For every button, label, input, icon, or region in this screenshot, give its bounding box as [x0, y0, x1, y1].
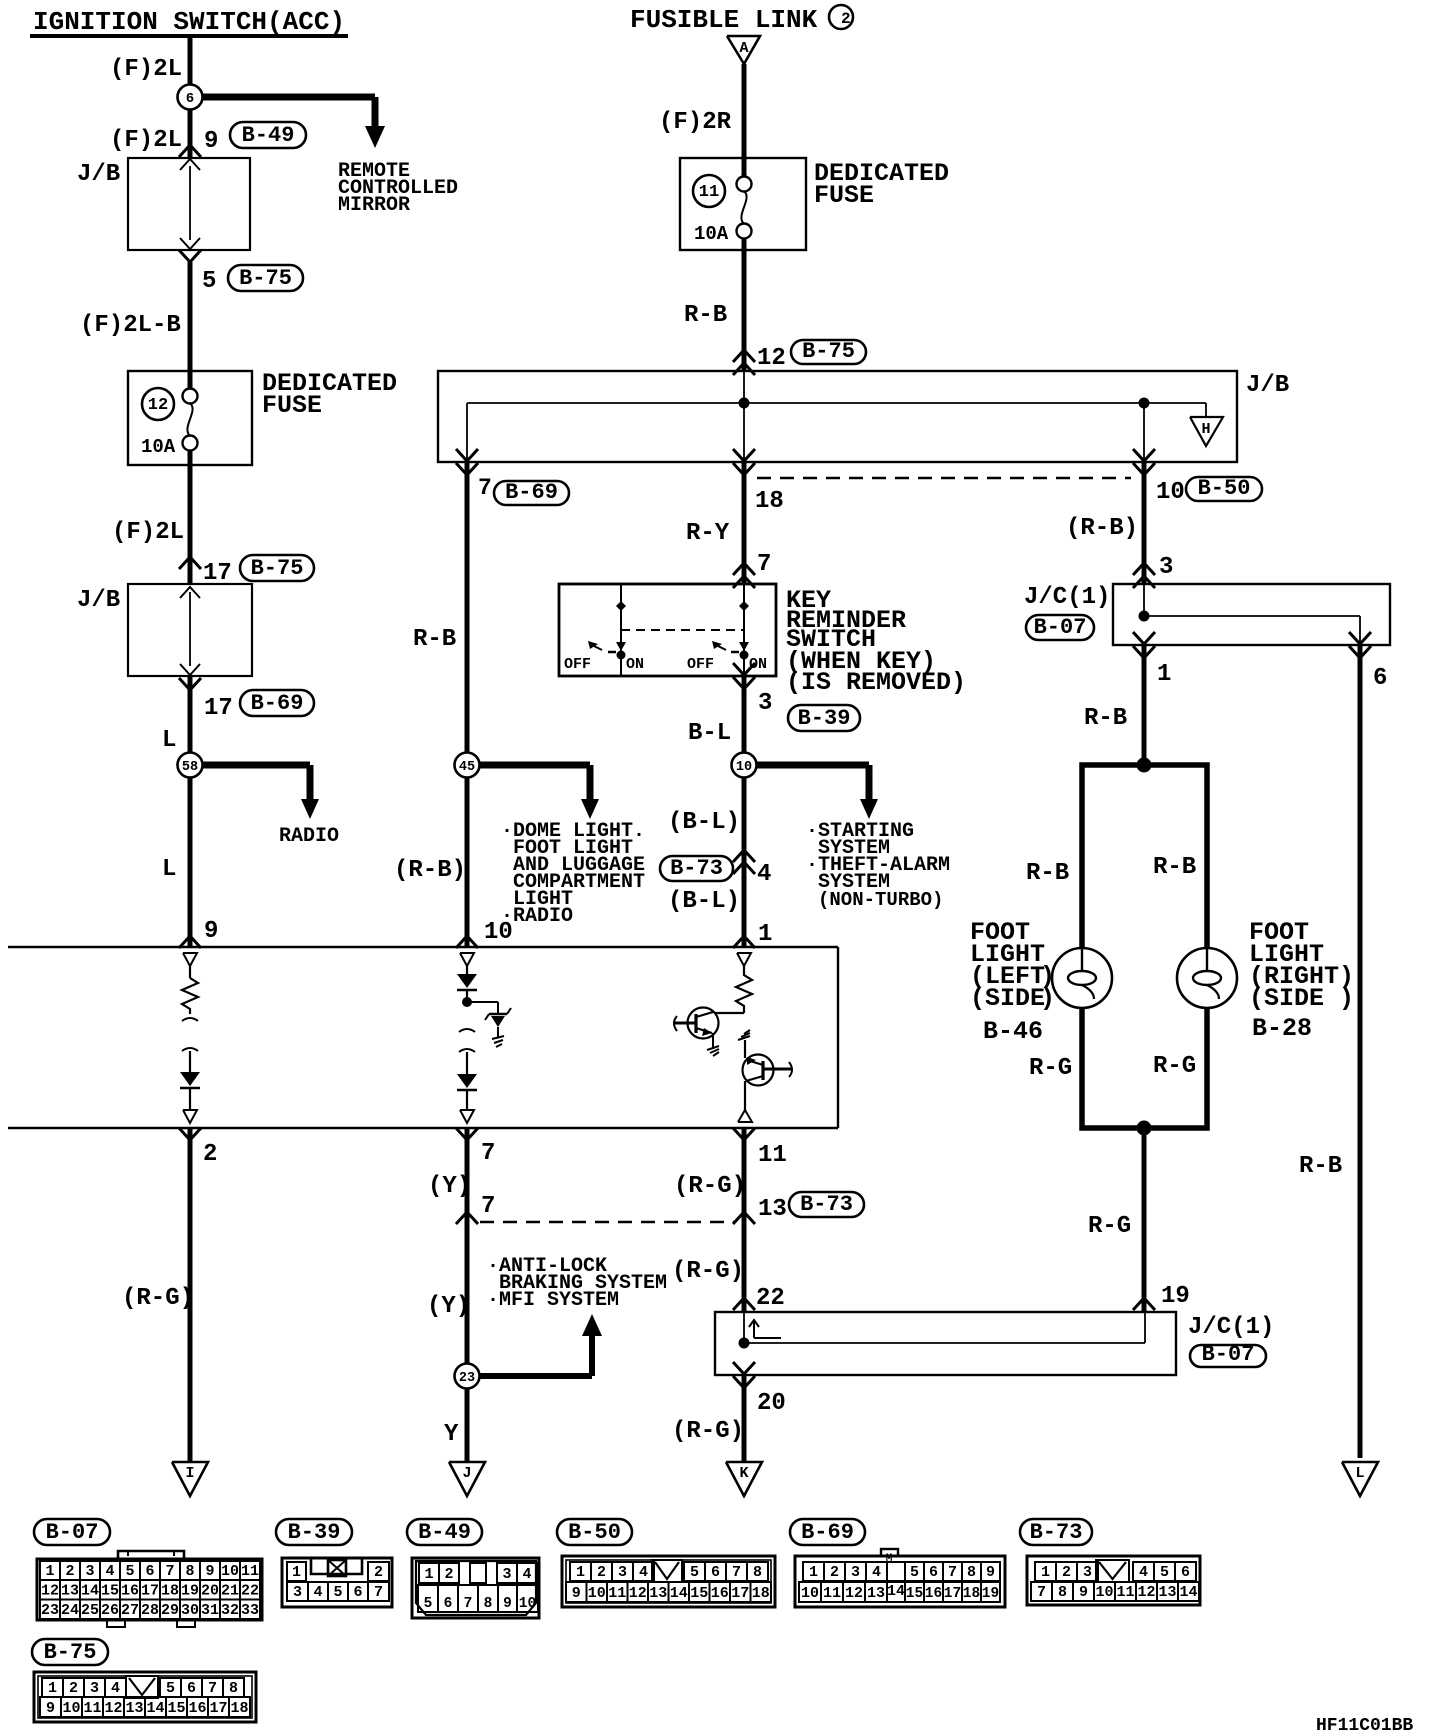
svg-text:18: 18	[963, 1586, 980, 1602]
svg-text:IGNITION SWITCH(ACC): IGNITION SWITCH(ACC)	[33, 7, 345, 37]
svg-text:15: 15	[906, 1586, 923, 1602]
svg-text:12: 12	[629, 1585, 647, 1602]
svg-text:B-75: B-75	[239, 266, 292, 291]
svg-text:5: 5	[166, 1680, 175, 1697]
svg-text:(F)2R: (F)2R	[659, 109, 732, 136]
svg-text:19: 19	[181, 1583, 199, 1600]
svg-text:17: 17	[731, 1585, 749, 1602]
svg-text:3: 3	[1083, 1564, 1092, 1581]
svg-text:ON: ON	[626, 656, 644, 673]
svg-text:20: 20	[201, 1583, 219, 1600]
svg-text:J/B: J/B	[77, 161, 120, 188]
svg-text:10A: 10A	[694, 223, 729, 245]
svg-text:(R-G): (R-G)	[672, 1258, 744, 1285]
svg-text:6: 6	[929, 1564, 938, 1581]
svg-text:18: 18	[161, 1583, 179, 1600]
svg-text:30: 30	[181, 1602, 199, 1619]
svg-text:OFF: OFF	[687, 656, 714, 673]
svg-text:2: 2	[597, 1564, 606, 1581]
svg-text:2: 2	[444, 1566, 453, 1583]
svg-text:17: 17	[209, 1700, 227, 1717]
svg-text:Y: Y	[444, 1421, 459, 1448]
svg-text:8: 8	[753, 1564, 762, 1581]
svg-text:1: 1	[1041, 1564, 1050, 1581]
svg-text:B-39: B-39	[288, 1520, 341, 1545]
svg-text:9: 9	[46, 1700, 55, 1717]
svg-text:1: 1	[424, 1566, 433, 1583]
svg-text:45: 45	[459, 760, 475, 775]
svg-text:28: 28	[141, 1602, 159, 1619]
svg-text:B-75: B-75	[802, 339, 855, 364]
svg-text:(R-G): (R-G)	[674, 1173, 746, 1200]
svg-text:J/C(1): J/C(1)	[1188, 1314, 1274, 1341]
svg-text:13: 13	[867, 1585, 885, 1602]
svg-text:8: 8	[484, 1596, 493, 1612]
svg-text:·MFI SYSTEM: ·MFI SYSTEM	[487, 1289, 619, 1312]
svg-text:R-B: R-B	[684, 302, 727, 329]
svg-text:R-B: R-B	[1299, 1153, 1342, 1180]
svg-text:19: 19	[982, 1586, 999, 1602]
svg-text:L: L	[1355, 1465, 1364, 1482]
svg-text:10: 10	[484, 919, 513, 946]
svg-text:3: 3	[85, 1563, 94, 1580]
svg-text:7: 7	[478, 475, 492, 501]
svg-text:L: L	[162, 856, 176, 883]
svg-text:(B-L): (B-L)	[668, 888, 740, 915]
svg-text:11: 11	[823, 1585, 841, 1602]
svg-text:R-B: R-B	[1153, 854, 1196, 881]
svg-text:1: 1	[1157, 661, 1171, 688]
svg-text:6: 6	[1373, 665, 1387, 692]
svg-text:): )	[1040, 984, 1055, 1013]
svg-text:11: 11	[241, 1563, 259, 1580]
svg-text:4: 4	[872, 1564, 881, 1581]
svg-text:4: 4	[313, 1584, 322, 1601]
svg-text:OFF: OFF	[564, 656, 591, 673]
svg-text:4: 4	[522, 1566, 531, 1583]
svg-text:12: 12	[1137, 1584, 1155, 1601]
svg-text:3: 3	[618, 1564, 627, 1581]
svg-text:29: 29	[161, 1602, 179, 1619]
svg-text:H: H	[1201, 421, 1210, 438]
svg-text:B-39: B-39	[798, 706, 851, 731]
svg-text:J/B: J/B	[77, 587, 120, 614]
svg-text:3: 3	[502, 1566, 511, 1583]
svg-text:7: 7	[757, 551, 771, 578]
svg-text:2: 2	[203, 1141, 217, 1168]
svg-text:4: 4	[111, 1680, 120, 1697]
svg-text:3: 3	[758, 690, 772, 717]
svg-text:B-50: B-50	[1198, 476, 1251, 501]
svg-text:B-69: B-69	[251, 691, 304, 716]
svg-text:10: 10	[588, 1585, 606, 1602]
svg-text:8: 8	[1058, 1584, 1067, 1601]
svg-text:(F)2L: (F)2L	[110, 127, 182, 154]
svg-text:26: 26	[101, 1602, 119, 1619]
svg-text:R-G: R-G	[1153, 1053, 1196, 1080]
svg-text:11: 11	[83, 1700, 101, 1717]
svg-text:(R-B): (R-B)	[1066, 515, 1138, 542]
svg-text:(R-G): (R-G)	[672, 1418, 744, 1445]
svg-text:B-46: B-46	[983, 1017, 1043, 1046]
svg-text:FUSE: FUSE	[262, 391, 322, 420]
svg-text:6: 6	[444, 1596, 453, 1612]
svg-text:B-49: B-49	[242, 123, 295, 148]
svg-text:2: 2	[69, 1680, 78, 1697]
svg-text:4: 4	[639, 1564, 648, 1581]
svg-text:10: 10	[519, 1596, 536, 1612]
svg-text:10: 10	[1095, 1584, 1113, 1601]
svg-text:15: 15	[690, 1585, 708, 1602]
svg-text:14: 14	[1179, 1584, 1197, 1601]
svg-text:21: 21	[221, 1583, 239, 1600]
svg-text:8: 8	[185, 1563, 194, 1580]
svg-text:2: 2	[65, 1563, 74, 1580]
svg-text:(F)2L: (F)2L	[110, 56, 182, 83]
svg-text:12: 12	[41, 1583, 59, 1600]
svg-text:7: 7	[464, 1596, 473, 1612]
svg-text:I: I	[185, 1465, 194, 1482]
svg-text:11: 11	[758, 1142, 787, 1169]
svg-text:(NON-TURBO): (NON-TURBO)	[818, 889, 943, 911]
svg-text:J/C(1): J/C(1)	[1024, 584, 1110, 611]
svg-text:8: 8	[229, 1680, 238, 1697]
svg-text:3: 3	[293, 1584, 302, 1601]
svg-text:6: 6	[186, 91, 194, 107]
svg-text:23: 23	[459, 1371, 475, 1386]
svg-text:15: 15	[101, 1583, 119, 1600]
svg-text:14: 14	[887, 1583, 905, 1600]
svg-text:16: 16	[121, 1583, 139, 1600]
svg-text:27: 27	[121, 1602, 139, 1619]
svg-text:B-73: B-73	[670, 856, 723, 881]
svg-text:R-B: R-B	[1026, 860, 1069, 887]
svg-text:12: 12	[148, 396, 168, 415]
svg-text:12: 12	[104, 1700, 122, 1717]
svg-text:M: M	[886, 1553, 893, 1565]
svg-text:20: 20	[757, 1390, 786, 1417]
svg-text:HF11C01BB: HF11C01BB	[1316, 1716, 1413, 1736]
svg-text:(F)2L-B: (F)2L-B	[80, 312, 181, 339]
svg-text:(SIDE ): (SIDE )	[1249, 984, 1354, 1013]
svg-text:16: 16	[188, 1700, 206, 1717]
svg-text:B-69: B-69	[505, 480, 558, 505]
svg-text:B-50: B-50	[568, 1520, 621, 1545]
svg-text:10: 10	[1156, 479, 1185, 506]
svg-text:4: 4	[105, 1563, 114, 1580]
svg-text:9: 9	[204, 128, 218, 155]
svg-text:R-G: R-G	[1088, 1213, 1131, 1240]
svg-text:B-28: B-28	[1252, 1014, 1312, 1043]
svg-text:3: 3	[851, 1564, 860, 1581]
svg-text:5: 5	[910, 1564, 919, 1581]
svg-text:9: 9	[1079, 1584, 1088, 1601]
svg-text:9: 9	[503, 1596, 512, 1612]
svg-text:31: 31	[201, 1602, 219, 1619]
svg-text:B-49: B-49	[418, 1520, 471, 1545]
svg-text:13: 13	[125, 1700, 143, 1717]
svg-text:6: 6	[711, 1564, 720, 1581]
svg-text:10: 10	[62, 1700, 80, 1717]
svg-text:16: 16	[925, 1586, 942, 1602]
svg-text:RADIO: RADIO	[279, 825, 339, 848]
svg-text:1: 1	[809, 1564, 818, 1581]
svg-text:7: 7	[948, 1564, 957, 1581]
svg-text:3: 3	[90, 1680, 99, 1697]
svg-text:9: 9	[205, 1563, 214, 1580]
svg-text:1: 1	[45, 1563, 54, 1580]
svg-text:9: 9	[204, 918, 218, 945]
svg-text:(Y): (Y)	[427, 1293, 470, 1320]
svg-text:6: 6	[187, 1680, 196, 1697]
svg-text:13: 13	[758, 1196, 787, 1223]
svg-text:17: 17	[141, 1583, 159, 1600]
svg-text:7: 7	[374, 1584, 383, 1601]
svg-text:15: 15	[167, 1700, 185, 1717]
svg-text:(F)2L: (F)2L	[112, 519, 184, 546]
svg-text:2: 2	[830, 1564, 839, 1581]
svg-text:7: 7	[732, 1564, 741, 1581]
svg-text:B-07: B-07	[46, 1520, 99, 1545]
svg-text:R-B: R-B	[1084, 705, 1127, 732]
svg-text:B-73: B-73	[800, 1192, 853, 1217]
svg-text:58: 58	[182, 760, 198, 775]
svg-text:4: 4	[1139, 1564, 1148, 1581]
svg-text:5: 5	[125, 1563, 134, 1580]
svg-text:18: 18	[230, 1700, 248, 1717]
svg-text:(R-G): (R-G)	[122, 1285, 194, 1312]
svg-text:R-G: R-G	[1029, 1055, 1072, 1082]
svg-text:1: 1	[576, 1564, 585, 1581]
svg-text:13: 13	[649, 1585, 667, 1602]
svg-text:13: 13	[61, 1583, 79, 1600]
svg-text:MIRROR: MIRROR	[338, 194, 410, 217]
svg-text:33: 33	[241, 1602, 259, 1619]
svg-text:2: 2	[374, 1564, 383, 1581]
svg-text:13: 13	[1158, 1584, 1176, 1601]
svg-text:10: 10	[801, 1585, 819, 1602]
svg-text:10A: 10A	[141, 436, 176, 458]
svg-text:(B-L): (B-L)	[668, 809, 740, 836]
svg-text:B-73: B-73	[1030, 1520, 1083, 1545]
svg-text:B-69: B-69	[801, 1520, 854, 1545]
svg-text:5: 5	[202, 268, 216, 295]
svg-text:7: 7	[1037, 1584, 1046, 1601]
svg-text:12: 12	[845, 1585, 863, 1602]
svg-text:FUSIBLE LINK: FUSIBLE LINK	[630, 5, 818, 35]
svg-text:22: 22	[241, 1583, 259, 1600]
svg-text:2: 2	[1062, 1564, 1071, 1581]
svg-text:R-Y: R-Y	[686, 520, 730, 547]
svg-text:B-07: B-07	[1034, 615, 1087, 640]
svg-text:14: 14	[81, 1583, 99, 1600]
svg-text:10: 10	[736, 760, 752, 775]
svg-text:1: 1	[48, 1680, 57, 1697]
svg-text:6: 6	[1181, 1564, 1190, 1581]
svg-text:1: 1	[758, 921, 772, 948]
svg-text:18: 18	[752, 1585, 770, 1602]
svg-text:(R-B): (R-B)	[394, 857, 466, 884]
svg-text:1: 1	[292, 1564, 301, 1581]
svg-text:9: 9	[986, 1564, 995, 1581]
svg-text:11: 11	[699, 183, 719, 202]
svg-text:6: 6	[353, 1584, 362, 1601]
svg-text:A: A	[739, 40, 748, 57]
svg-text:(SIDE: (SIDE	[970, 984, 1045, 1013]
svg-text:7: 7	[481, 1193, 495, 1220]
svg-text:FUSE: FUSE	[814, 181, 874, 210]
svg-text:L: L	[162, 727, 176, 754]
svg-text:18: 18	[755, 488, 784, 515]
svg-text:6: 6	[145, 1563, 154, 1580]
svg-text:9: 9	[572, 1585, 581, 1602]
svg-text:4: 4	[757, 861, 771, 888]
svg-text:14: 14	[146, 1700, 164, 1717]
svg-text:17: 17	[204, 695, 233, 722]
svg-text:8: 8	[967, 1564, 976, 1581]
svg-text:14: 14	[670, 1585, 688, 1602]
svg-text:2: 2	[841, 10, 851, 28]
svg-text:B-L: B-L	[688, 720, 731, 747]
svg-text:J: J	[462, 1465, 471, 1482]
svg-text:7: 7	[481, 1140, 495, 1167]
svg-text:R-B: R-B	[413, 626, 456, 653]
svg-text:24: 24	[61, 1602, 79, 1619]
svg-text:10: 10	[221, 1563, 239, 1580]
svg-text:B-75: B-75	[251, 556, 304, 581]
svg-text:K: K	[739, 1465, 748, 1482]
svg-text:16: 16	[711, 1585, 729, 1602]
svg-text:7: 7	[165, 1563, 174, 1580]
svg-text:22: 22	[756, 1285, 785, 1312]
svg-text:5: 5	[424, 1596, 433, 1612]
svg-text:12: 12	[757, 345, 786, 372]
svg-text:5: 5	[1160, 1564, 1169, 1581]
svg-text:23: 23	[41, 1602, 59, 1619]
svg-text:7: 7	[208, 1680, 217, 1697]
svg-text:5: 5	[333, 1584, 342, 1601]
svg-text:B-75: B-75	[44, 1640, 97, 1665]
svg-text:3: 3	[1159, 554, 1173, 581]
svg-text:(Y): (Y)	[428, 1173, 471, 1200]
svg-text:11: 11	[1116, 1584, 1134, 1601]
svg-text:25: 25	[81, 1602, 99, 1619]
svg-text:5: 5	[690, 1564, 699, 1581]
svg-text:32: 32	[221, 1602, 239, 1619]
svg-text:J/B: J/B	[1246, 372, 1289, 399]
svg-text:11: 11	[608, 1585, 626, 1602]
svg-text:19: 19	[1161, 1283, 1190, 1310]
svg-text:B-07: B-07	[1202, 1342, 1255, 1367]
svg-text:(IS REMOVED): (IS REMOVED)	[786, 668, 966, 697]
svg-text:17: 17	[944, 1586, 961, 1602]
